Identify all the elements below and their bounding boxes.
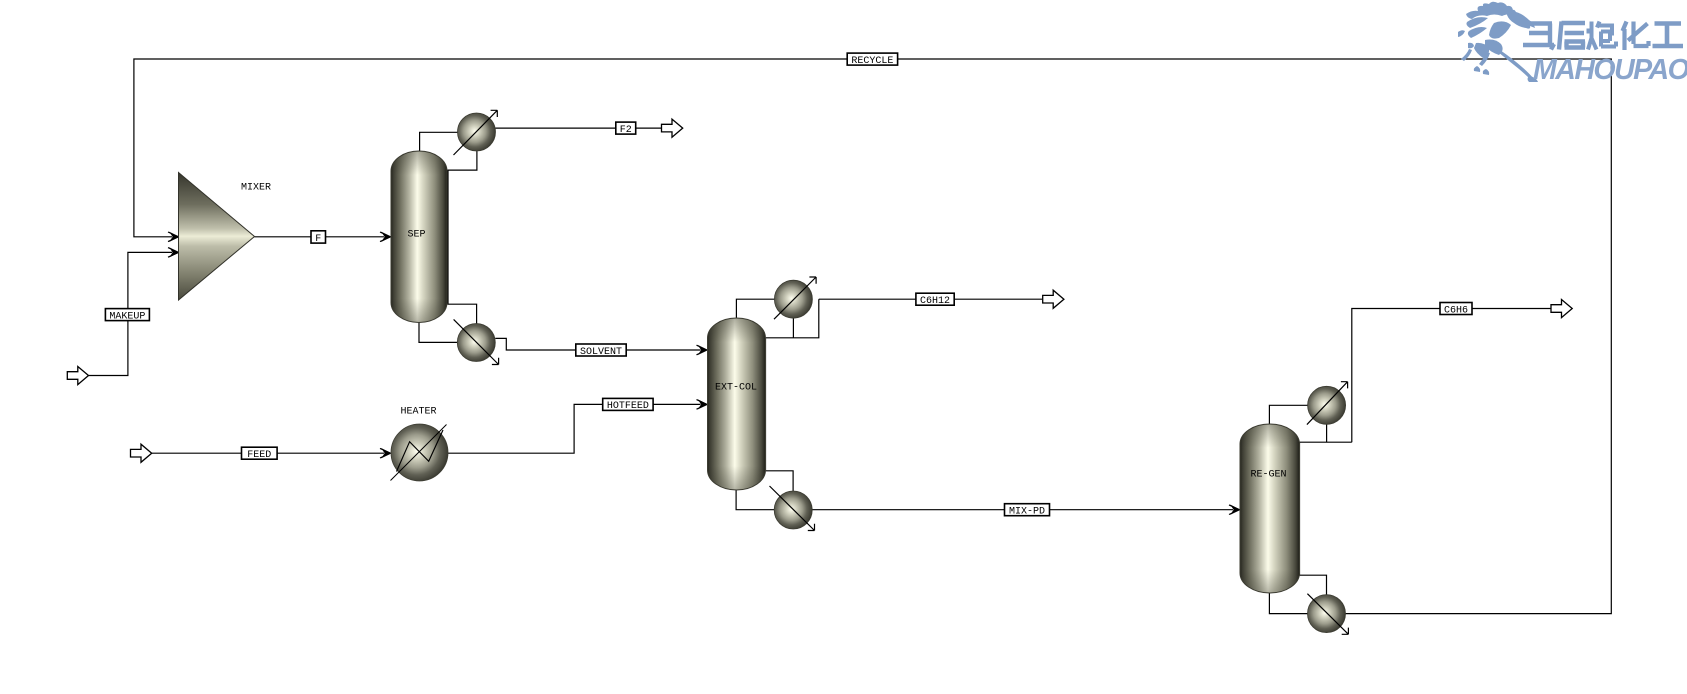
wire RE-GEN condenser return [1300,424,1352,442]
svg-text:C6H12: C6H12 [920,296,950,307]
logo chinese text: char MA [1523,24,1554,50]
heater HEATER [391,406,449,481]
svg-text:RE-GEN: RE-GEN [1250,469,1286,480]
arrowhead MIX-PD into RE-GEN [1229,505,1240,515]
stream label SOLVENT [576,344,626,358]
svg-text:MAHOUPAO: MAHOUPAO [1533,54,1687,86]
svg-text:MIXER: MIXER [241,183,271,194]
svg-text:SOLVENT: SOLVENT [580,347,622,358]
column RE-GEN (regenerator) [1240,424,1300,593]
wire RE-GEN bottom outlet [1269,592,1307,613]
svg-text:HEATER: HEATER [400,406,436,417]
wire HOTFEED [448,404,701,453]
wire EXT-COL side downcomer to reboiler [766,338,794,491]
arrowhead recycle into mixer [168,232,179,242]
wire SEP condenser return to column [448,151,477,324]
wire SEP top vapor to condenser [420,132,458,151]
stream label F [311,231,326,245]
svg-text:C6H6: C6H6 [1444,305,1468,316]
heat exchanger EXT-COL reboiler [770,486,815,531]
svg-text:MAKEUP: MAKEUP [109,311,145,322]
stream label C6H12 [916,293,954,307]
open arrow MAKEUP feed [67,367,88,385]
stream label MAKEUP [105,309,149,323]
wire EXT-COL condenser return and distillate riser [766,299,819,338]
svg-text:MIX-PD: MIX-PD [1009,507,1045,518]
logo chinese text: char PAO [1588,22,1616,50]
stream label FEED [242,447,278,461]
logo chinese text: char HOU [1559,22,1585,50]
stream label HOTFEED [603,398,653,412]
svg-text:FEED: FEED [247,450,271,461]
svg-text:EXT-COL: EXT-COL [715,383,757,394]
svg-text:F2: F2 [620,125,632,136]
open arrow C6H6 product [1551,300,1572,318]
wire RE-GEN top vapor to condenser [1269,405,1307,424]
mixer MIXER (triangle block) [179,173,272,301]
stream label F2 [616,122,636,136]
wire C6H12 [819,298,1042,300]
wire EXT-COL bottom outlet [736,490,774,510]
open arrow C6H12 product [1043,290,1064,308]
svg-text:F: F [315,234,321,245]
heat exchanger SEP condenser [454,110,498,155]
arrowhead F into SEP [380,232,391,242]
arrowhead makeup into mixer [168,248,179,258]
heat exchanger RE-GEN condenser [1307,382,1348,425]
heat exchanger SEP bottoms cooler [454,319,499,364]
open arrow FEED [131,444,152,462]
wire F2 distillate [496,127,662,129]
arrowhead HOTFEED into EXT-COL [697,400,708,410]
logo wordmark MAHOUPAO [1533,54,1687,86]
stream label RECYCLE [847,53,897,67]
svg-text:SEP: SEP [407,230,425,241]
stream label MIX-PD [1005,504,1050,518]
wire SEP bottom outlet [419,322,457,343]
logo chinese text: char HUA [1623,22,1649,51]
wire C6H6 [1352,309,1551,443]
arrowhead SOLVENT into EXT-COL [697,345,708,355]
wire F (mixer outlet to SEP) [255,236,385,238]
wire MIX-PD [812,509,1233,511]
heat exchanger EXT-COL condenser [774,277,816,319]
wire MAKEUP [89,252,173,375]
wire FEED [152,452,385,454]
svg-text:RECYCLE: RECYCLE [851,56,893,67]
wire RE-GEN side downcomer to reboiler [1300,442,1327,595]
column SEP (flash vessel) [391,151,447,323]
open arrow F2 product [662,119,683,137]
heat exchanger RE-GEN reboiler [1307,594,1348,635]
column EXT-COL (extraction column) [708,318,766,490]
wire EXT-COL top vapor to condenser [736,299,774,318]
svg-text:HOTFEED: HOTFEED [607,401,649,412]
stream label C6H6 [1440,303,1472,317]
wire RECYCLE loop [134,59,1611,614]
arrowhead FEED into heater [380,448,391,458]
wire SOLVENT [495,338,700,350]
logo chinese text: char GONG [1653,24,1684,47]
logo horse graphic [1458,2,1538,82]
